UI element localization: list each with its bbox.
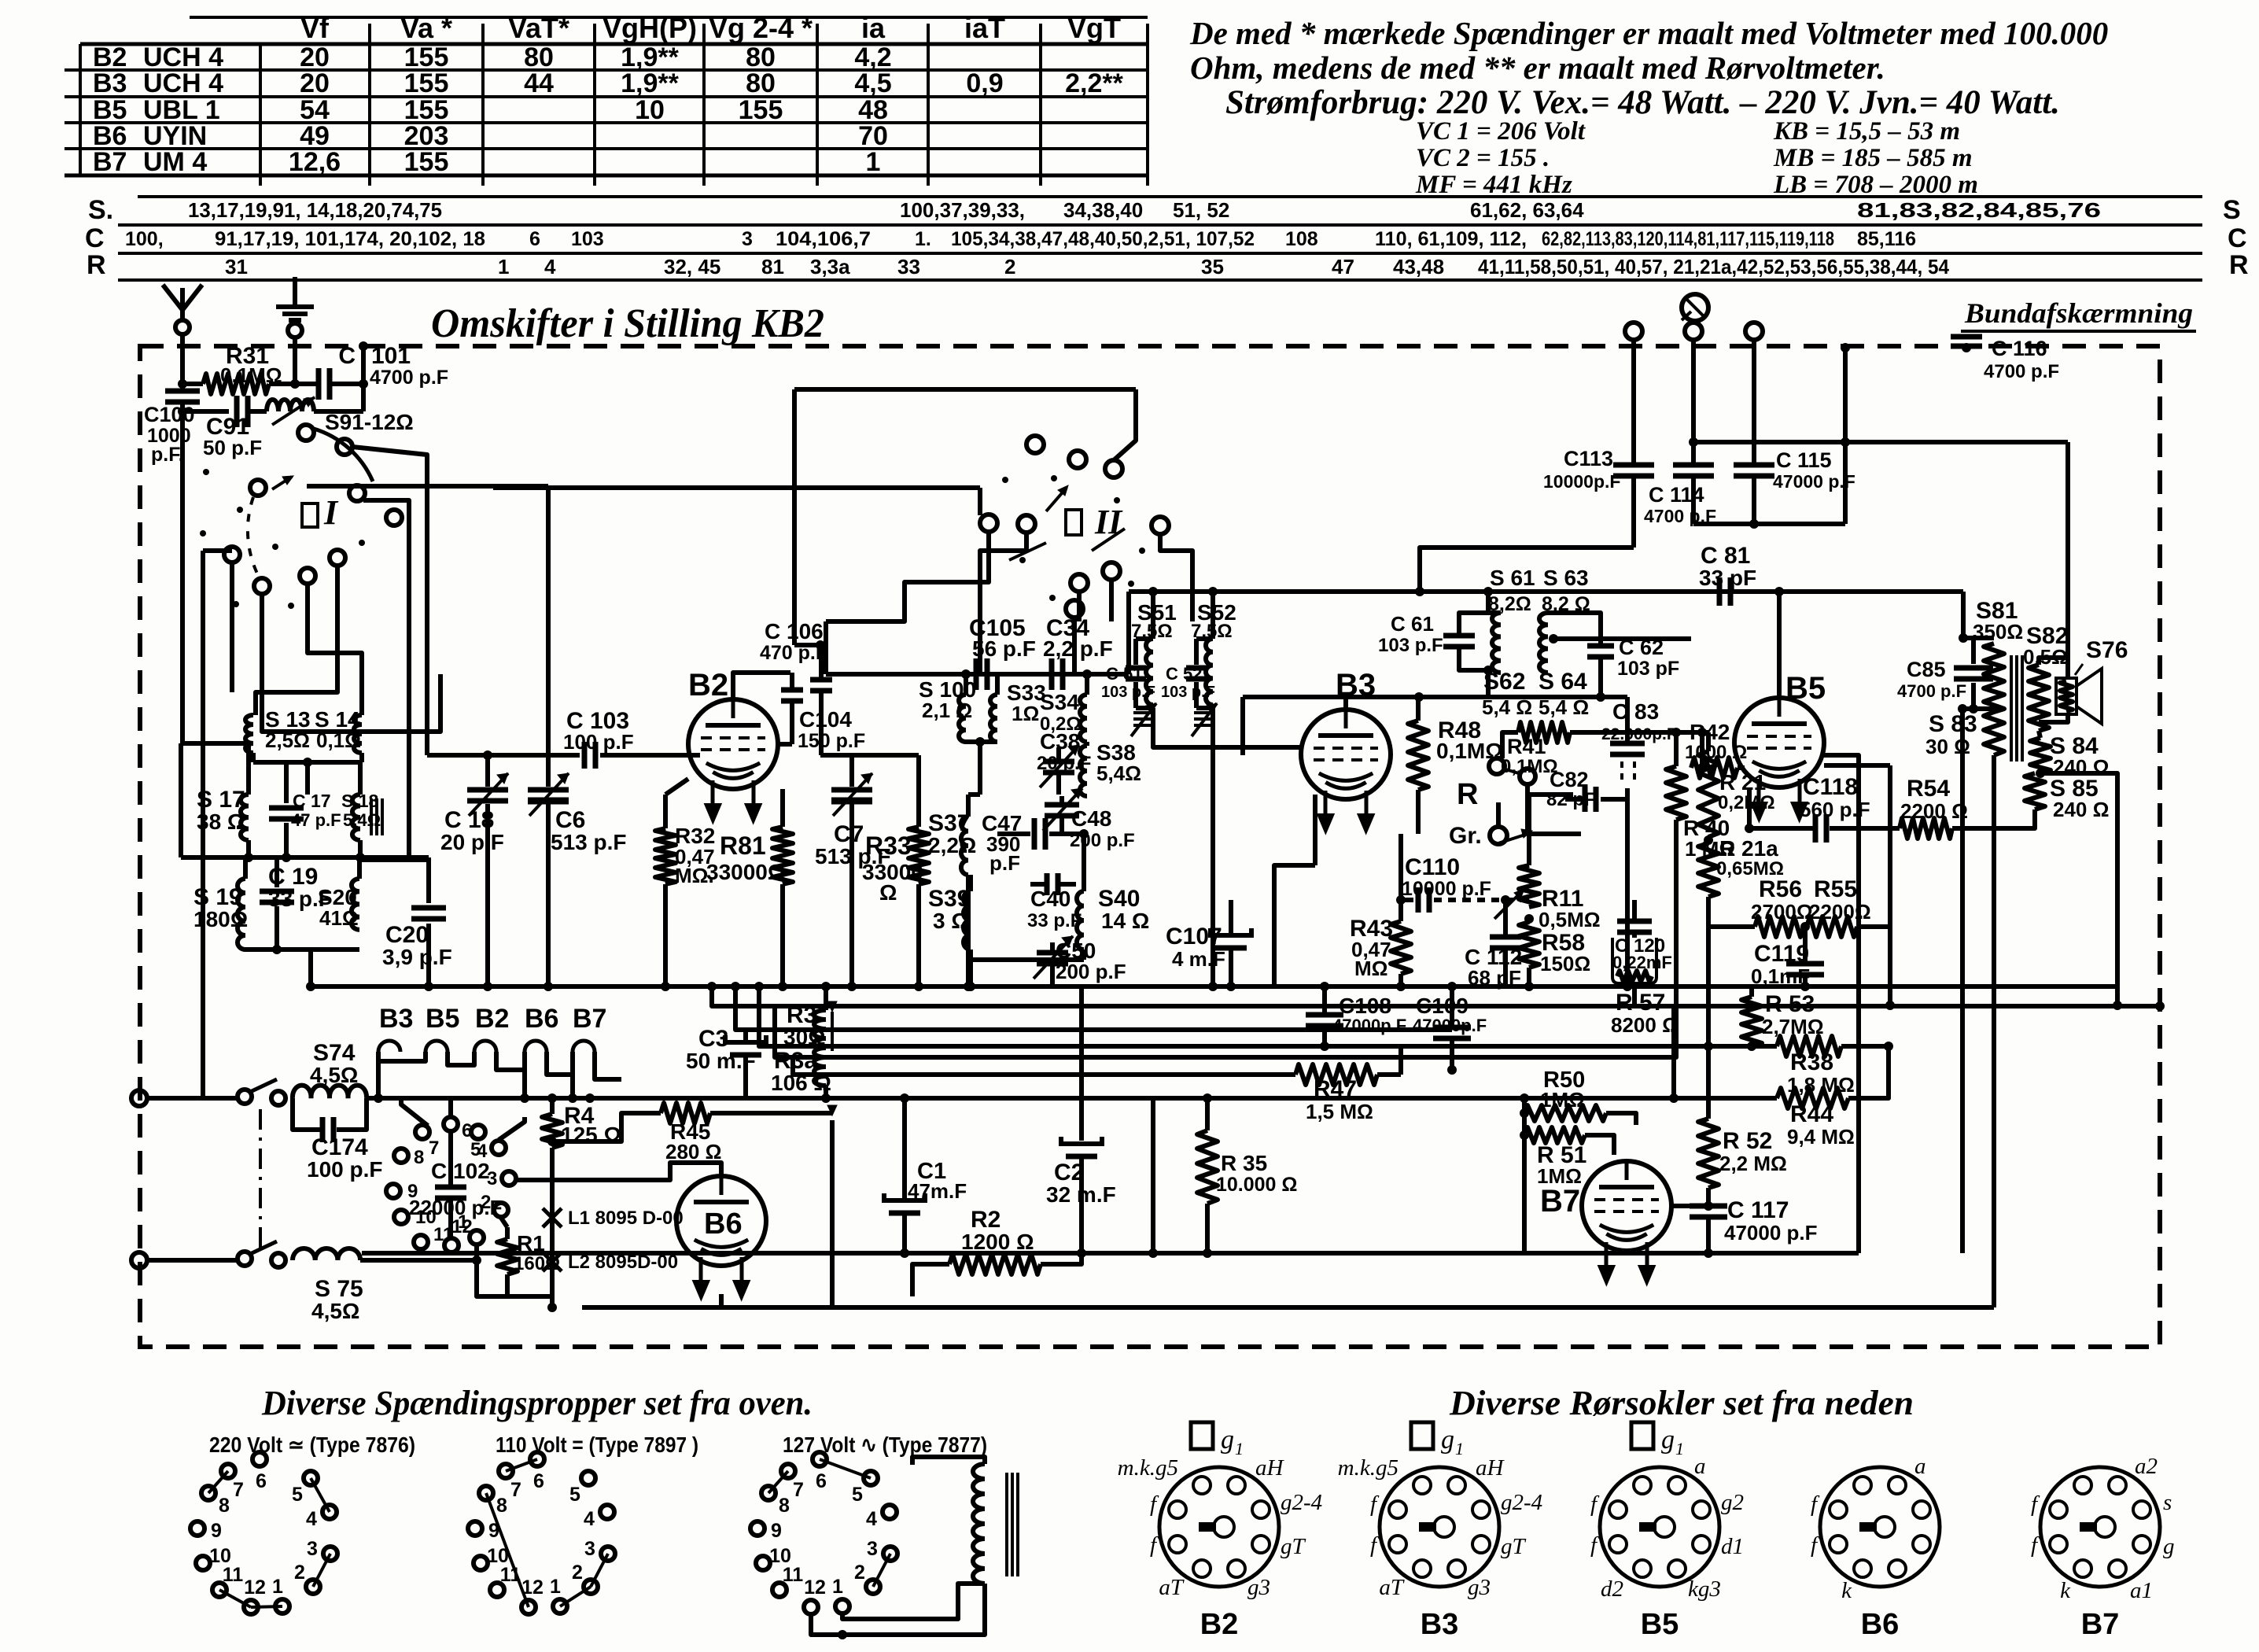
wire plug connections [401,1098,428,1126]
svg-text:R 57: R 57 [1616,990,1665,1016]
svg-text:3: 3 [307,1538,318,1560]
svg-text:C 116: C 116 [1992,337,2047,360]
svg-text:B2: B2 [475,1004,509,1034]
capacitor C109 [1433,1025,1471,1031]
svg-text:I: I [323,493,339,532]
wire R50/R51 left column [1522,1098,1527,1155]
svg-text:g3: g3 [1468,1575,1491,1600]
resistor R35 [1205,1098,1210,1130]
coil S38 [1080,746,1087,796]
svg-text:2: 2 [572,1562,583,1584]
tube B7 [1582,1161,1671,1251]
resistor R38 [1752,1044,1777,1049]
svg-text:3: 3 [867,1538,878,1560]
wire S82 top [2039,658,2068,678]
svg-text:S 83: S 83 [1929,711,1977,737]
svg-text:1: 1 [832,1576,843,1598]
svg-text:a: a [1694,1454,1706,1479]
wire bottom bus y1593 [362,1251,1859,1256]
svg-text:100 p.F: 100 p.F [563,730,634,754]
svg-text:a2: a2 [2135,1454,2158,1479]
wire B7 to C117 [1671,1204,1708,1208]
chassis shield dashed border [140,346,2160,1347]
svg-text:C113: C113 [1564,447,1613,470]
coil S37 [966,795,971,817]
pickup symbol [1682,294,1708,321]
svg-text:B2: B2 [1200,1608,1239,1641]
wire bottom line y1667 [582,1305,1994,1310]
capacitor C112 [1503,900,1508,935]
svg-text:56 p.F: 56 p.F [972,636,1036,661]
coil S91 [267,400,314,411]
socket B6 [1820,1467,1940,1587]
resistor R31 [182,382,203,386]
resistor R81 [780,789,785,827]
svg-text:110 Volt = (Type 7897 ): 110 Volt = (Type 7897 ) [496,1433,698,1457]
wire coil bottoms [245,947,359,952]
svg-text:2: 2 [1004,255,1015,278]
svg-text:10000 p.F: 10000 p.F [1402,878,1491,900]
svg-text:2,2**: 2,2** [1065,68,1123,98]
resistor R44 [1674,1096,1777,1101]
svg-text:m.k.g5: m.k.g5 [1338,1455,1399,1481]
svg-text:4,5Ω: 4,5Ω [311,1299,359,1323]
svg-text:150 p.F: 150 p.F [798,730,865,752]
capacitor C110 [1401,898,1413,902]
coil S100 [959,695,966,742]
svg-text:VaT*: VaT* [508,12,569,44]
svg-text:4: 4 [584,1508,595,1530]
svg-text:5,4 Ω: 5,4 Ω [1539,695,1589,719]
svg-text:13,17,19,91, 14,18,20,74,75: 13,17,19,91, 14,18,20,74,75 [188,198,442,222]
wire S81 C85 junction [1961,592,1966,638]
svg-text:155: 155 [404,68,449,98]
resistor R21a [1698,843,1719,897]
svg-text:1Ω: 1Ω [1012,702,1039,725]
svg-text:6: 6 [529,228,540,250]
svg-text:3,9 p.F: 3,9 p.F [382,945,452,969]
svg-text:155: 155 [404,147,449,177]
input terminal upper [131,1090,147,1106]
svg-text:Diverse Spændingspropper set f: Diverse Spændingspropper set fra oven. [261,1384,813,1422]
svg-text:240 Ω: 240 Ω [2053,798,2109,821]
svg-text:ia: ia [861,12,886,44]
svg-text:32, 45: 32, 45 [664,255,720,278]
svg-text:5,4 Ω: 5,4 Ω [1482,695,1532,719]
svg-text:UCH 4: UCH 4 [143,68,223,98]
svg-text:7: 7 [429,1138,439,1159]
svg-text:C: C [338,343,356,369]
svg-text:32 m.F: 32 m.F [1046,1182,1116,1207]
svg-text:30Ω: 30Ω [783,1025,826,1049]
resistor R1 [505,1227,510,1239]
svg-text:Ω: Ω [879,880,897,905]
capacitor C120 resistor R57 block [1632,900,1637,919]
svg-text:gT: gT [1281,1534,1306,1559]
coil S18 with core [358,762,363,795]
svg-text:C48: C48 [1071,806,1111,831]
svg-text:MΩ: MΩ [1354,957,1388,980]
svg-text:1: 1 [1455,1439,1464,1458]
svg-text:g3: g3 [1247,1575,1270,1600]
svg-text:k: k [2060,1578,2071,1603]
socket B5 [1600,1467,1719,1587]
svg-text:g2-4: g2-4 [1501,1490,1542,1515]
capacitor C34 [1049,658,1055,690]
coil S13 [245,715,253,753]
IF transformer S52 C52 [1211,592,1215,639]
svg-text:R 35: R 35 [1221,1151,1267,1175]
svg-text:81: 81 [761,255,784,278]
coil S19 [238,879,245,950]
capacitor C103 [427,753,580,758]
coil S74 [293,1086,367,1098]
svg-text:11: 11 [223,1564,244,1586]
svg-text:R56: R56 [1759,876,1802,902]
svg-text:d2: d2 [1601,1576,1623,1602]
svg-text:1,9**: 1,9** [621,68,679,98]
svg-text:12,6: 12,6 [289,147,341,177]
svg-text:Bundafskærmning: Bundafskærmning [1964,297,2193,329]
long top wire [794,387,1136,392]
wire vertical x1466 [1151,1098,1155,1253]
svg-text:103 p.F: 103 p.F [1378,635,1443,656]
coil S17 [241,795,249,840]
svg-text:R 52: R 52 [1723,1128,1772,1154]
svg-text:iaT: iaT [964,12,1005,44]
svg-text:10.000 Ω: 10.000 Ω [1216,1174,1297,1196]
svg-text:C119: C119 [1754,941,1809,967]
capacitor C106 [819,645,824,678]
svg-text:C107: C107 [1166,924,1222,950]
svg-text:1: 1 [272,1576,283,1598]
resistors R56 R55 [1755,916,1804,937]
svg-text:C 117: C 117 [1727,1197,1789,1223]
svg-text:kg3: kg3 [1688,1576,1721,1602]
svg-text:LB = 708 – 2000 m: LB = 708 – 2000 m [1773,171,1978,199]
band switch I wafer [298,425,314,441]
coil S39 [964,891,971,950]
wire row [181,855,429,860]
capacitor C2 [1079,1117,1084,1141]
wire B3 cathode down [1313,795,1317,865]
svg-text:47000p.F: 47000p.F [1332,1016,1406,1035]
wire long line y752 [1129,589,1963,594]
coil S34 [1080,695,1087,742]
tube B5 [1734,698,1824,787]
capacitor C174 [293,1098,320,1130]
heater chain humps [378,1041,400,1052]
svg-text:8: 8 [779,1495,790,1517]
resistor R43 [1399,900,1403,921]
svg-text:p.F: p.F [989,851,1020,875]
S C R component index band [138,195,2202,198]
resistor R32 [663,795,668,828]
svg-text:C 17: C 17 [293,791,331,811]
svg-text:41Ω: 41Ω [319,906,359,930]
svg-text:91,17,19, 101,174, 20,102, 18: 91,17,19, 101,174, 20,102, 18 [215,228,485,250]
wire bus y1366 [793,1057,1211,1075]
svg-text:R 21a: R 21a [1719,836,1778,861]
svg-text:Vf: Vf [300,12,330,44]
svg-text:9: 9 [211,1520,222,1542]
resistor R48 [1416,697,1421,721]
svg-text:De med * mærkede Spændinger er: De med * mærkede Spændinger er maalt med… [1189,15,2108,51]
mech link dash-dot [259,1109,262,1251]
wire bus y1396 [590,1096,1674,1101]
variable capacitor C6 [528,787,569,793]
input terminal lower [131,1252,147,1268]
svg-text:1: 1 [550,1576,561,1598]
svg-text:101: 101 [371,343,411,369]
wire B3 anode top [1343,697,1348,710]
svg-text:B6: B6 [704,1208,743,1241]
capacitor C50 variable [1037,950,1068,956]
svg-text:0,5MΩ: 0,5MΩ [1539,908,1601,931]
svg-text:II: II [1094,503,1123,541]
resistor R54 [1900,818,1952,839]
svg-text:1,5 MΩ: 1,5 MΩ [1306,1100,1373,1123]
svg-text:L1 8095 D-00: L1 8095 D-00 [568,1208,684,1229]
capacitor C17 [284,762,289,803]
svg-text:11: 11 [783,1564,804,1586]
coil S40 [1077,891,1084,950]
svg-text:2200Ω: 2200Ω [1809,900,1871,924]
svg-text:4: 4 [306,1508,317,1530]
svg-text:33000Ω: 33000Ω [706,860,785,884]
svg-text:3: 3 [742,228,753,250]
svg-text:20 p.F: 20 p.F [440,830,504,854]
svg-text:103 pF: 103 pF [1617,658,1679,680]
svg-text:6: 6 [256,1470,267,1492]
resistor R51 [1524,1127,1585,1143]
svg-text:B3: B3 [93,68,127,98]
svg-text:1: 1 [498,255,509,278]
winding S84 [2030,738,2051,773]
svg-text:B5: B5 [1641,1608,1679,1641]
svg-text:35: 35 [1201,255,1224,278]
svg-text:4 m.F: 4 m.F [1172,947,1225,971]
svg-text:C 51: C 51 [1106,664,1142,684]
svg-text:2700Ω: 2700Ω [1751,900,1813,924]
wire y562 to output [1693,440,2068,444]
winding S85 [2025,773,2045,809]
svg-text:2,5Ω: 2,5Ω [265,728,310,752]
wire R41-R21 top line [1570,730,1708,735]
speaker S76 [2056,678,2077,714]
svg-text:C104: C104 [799,707,852,732]
svg-text:62,82,113,83,120,114,81,117,11: 62,82,113,83,120,114,81,117,115,119,118 [1542,228,1834,250]
svg-text:47000 p.F: 47000 p.F [1724,1221,1818,1245]
svg-text:g2: g2 [1721,1490,1744,1515]
svg-text:12: 12 [244,1576,266,1599]
svg-text:22000 p.F: 22000 p.F [409,1196,503,1219]
svg-text:150Ω: 150Ω [1540,952,1590,975]
svg-text:51, 52: 51, 52 [1173,198,1229,222]
svg-text:5,4Ω: 5,4Ω [343,810,381,830]
coil S33 [990,695,997,742]
svg-text:6: 6 [816,1470,827,1492]
resistor R47 [1211,1072,1295,1077]
svg-text:1200 Ω: 1200 Ω [961,1230,1034,1254]
svg-text:80: 80 [746,68,776,98]
wire S84 tap [2040,773,2117,1005]
svg-text:B7: B7 [93,147,127,177]
capacitor C108 [1306,1012,1343,1018]
svg-text:4: 4 [866,1508,877,1530]
transformer coil of plug 127V [973,1464,985,1584]
svg-text:a1: a1 [2130,1578,2153,1603]
capacitor C3 [725,1035,766,1042]
wire B5 anode side [1824,755,1859,1253]
wire R55 R56 line [1707,924,1755,929]
svg-text:R33: R33 [865,832,912,860]
svg-text:gT: gT [1501,1534,1527,1559]
svg-text:4,5: 4,5 [854,68,891,98]
wire C113 bottom to S61 [1420,548,1634,592]
svg-text:4,5Ω: 4,5Ω [310,1063,358,1087]
svg-text:R44: R44 [1790,1101,1833,1127]
capacitor C107 [1229,900,1233,935]
svg-text:0,9: 0,9 [966,68,1003,98]
wire B2 anode top [733,673,790,699]
svg-text:4700 p.F: 4700 p.F [370,367,448,389]
switch II wiring [1114,389,1136,460]
svg-text:C82: C82 [1550,768,1589,791]
svg-text:280 Ω: 280 Ω [665,1140,721,1163]
IF transformer S51 C51 [1151,592,1155,639]
svg-text:B2: B2 [688,668,728,702]
svg-text:103: 103 [571,228,604,250]
svg-text:m.k.g5: m.k.g5 [1118,1455,1178,1481]
svg-text:155: 155 [739,95,783,125]
svg-text:560 p.F: 560 p.F [1800,798,1870,821]
svg-text:0,22mF: 0,22mF [1612,953,1672,972]
capacitor C119 [1803,927,1808,961]
svg-text:103 p.F: 103 p.F [1101,684,1155,701]
capacitor C101 [269,382,316,386]
svg-text:2,2 MΩ: 2,2 MΩ [1719,1152,1787,1175]
svg-text:C: C [2228,223,2247,253]
capacitor C116 [1951,334,1982,340]
svg-text:p.F.: p.F. [151,444,184,466]
wire speaker bottom [2039,714,2068,722]
svg-text:2,2 p.F: 2,2 p.F [1043,636,1113,661]
svg-text:20: 20 [300,68,330,98]
svg-text:7: 7 [233,1479,244,1501]
output transformer core [2010,655,2013,761]
resistor R42 [1697,763,1707,773]
svg-text:C 115: C 115 [1776,448,1832,472]
svg-text:g: g [2163,1534,2175,1559]
svg-text:41,11,58,50,51, 40,57, 21,21a,: 41,11,58,50,51, 40,57, 21,21a,42,52,53,5… [1478,255,1949,278]
capacitor C1 [902,1180,907,1200]
svg-text:5: 5 [852,1484,863,1506]
svg-text:VgH(P): VgH(P) [603,12,697,44]
svg-text:100 p.F: 100 p.F [307,1157,382,1182]
svg-text:B7: B7 [2081,1608,2120,1641]
svg-text:Omskifter i Stilling KB2: Omskifter i Stilling KB2 [431,301,824,346]
svg-text:R: R [87,250,106,280]
svg-text:B6: B6 [1861,1608,1900,1641]
svg-text:s: s [2163,1490,2172,1515]
capacitor C117 [1706,1188,1711,1204]
capacitor C82 [1527,832,1581,836]
resistor R40 [1674,732,1679,766]
svg-text:d1: d1 [1721,1534,1744,1559]
capacitor C104 [790,673,794,688]
svg-text:S76: S76 [2086,637,2128,663]
svg-text:VC 2 = 155 .: VC 2 = 155 . [1416,144,1550,172]
svg-text:33: 33 [897,255,920,278]
svg-text:103 p.F: 103 p.F [1161,684,1215,701]
svg-text:B7: B7 [573,1004,606,1034]
capacitor C105 [974,658,979,690]
svg-text:B3: B3 [1421,1608,1459,1641]
svg-text:1: 1 [1675,1439,1684,1458]
svg-text:4700 p.F: 4700 p.F [1984,361,2059,382]
wire C114 C115 bottoms [1693,522,1845,526]
svg-text:43,48: 43,48 [1393,255,1444,278]
svg-text:6: 6 [462,1120,472,1141]
svg-text:2: 2 [294,1562,305,1584]
svg-text:B6: B6 [525,1004,558,1034]
wire B6 top [517,1163,721,1180]
svg-text:47000p.F: 47000p.F [1413,1016,1487,1035]
svg-text:aT: aT [1379,1575,1405,1600]
capacitor C85 [1971,638,1976,664]
capacitor C83 [1625,697,1630,743]
resistor R52 [1706,1046,1711,1119]
resistor R4 [550,1098,555,1114]
socket B7 [2040,1467,2160,1587]
wire bus y1344 [775,986,1676,1057]
resistor R53 [1749,986,1754,997]
svg-text:KB = 15,5 – 53 m: KB = 15,5 – 53 m [1773,117,1960,146]
wire S83 down [1960,709,1965,1253]
terminal posts [1625,323,1642,340]
wire S85 bottom to R54 [1952,809,2035,828]
svg-text:C: C [85,223,105,253]
tube B6 [676,1176,766,1266]
wire right bus verticals [1888,765,1892,1005]
svg-text:k: k [1841,1578,1852,1603]
svg-text:106 Ω: 106 Ω [771,1071,831,1095]
svg-text:Gr.: Gr. [1449,823,1482,849]
wire main bus y1254 [311,984,2116,989]
svg-text:14 Ω: 14 Ω [1101,909,1149,933]
svg-text:7,5Ω: 7,5Ω [1131,621,1173,642]
svg-text:Vg 2-4 *: Vg 2-4 * [709,12,813,44]
svg-text:38 Ω: 38 Ω [197,809,245,834]
svg-text:1.: 1. [915,228,931,250]
capacitor C100 [165,389,200,394]
svg-text:8: 8 [414,1147,424,1168]
svg-text:81,83,82,84,85,76: 81,83,82,84,85,76 [1857,198,2101,222]
svg-text:B7: B7 [1540,1184,1580,1219]
wire S51 to B3 [1153,708,1301,747]
svg-text:R38: R38 [1790,1049,1833,1075]
wire S62 S64 line y886 [1243,695,1627,699]
wire B2 grid [688,753,700,758]
variable capacitor C18 [485,755,490,787]
svg-text:4: 4 [544,255,556,278]
svg-text:R41: R41 [1507,735,1546,758]
svg-text:513 p.F: 513 p.F [551,830,626,854]
coil S14 [354,715,362,753]
svg-text:MB = 185 – 585 m: MB = 185 – 585 m [1773,144,1973,172]
svg-text:10000p.F: 10000p.F [1543,471,1620,492]
